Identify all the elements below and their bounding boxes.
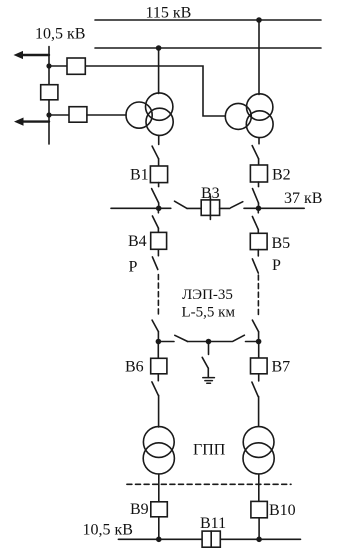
wire blade to bus37 right — [258, 203, 260, 208]
wire center dot down — [208, 342, 210, 355]
transformer T2 winding bottom — [246, 111, 273, 138]
wire bus37 to blade B5 — [257, 208, 259, 213]
svg-text:В2: В2 — [272, 167, 291, 184]
wire blade to GPP T3 — [158, 395, 160, 427]
svg-text:В6: В6 — [125, 359, 144, 376]
transformer T1 winding left — [126, 102, 152, 128]
disconnect blade below B7 — [252, 382, 258, 397]
wire blade to B4 — [157, 228, 159, 232]
wire B4 to blade — [157, 249, 159, 255]
node dot tie right — [256, 339, 262, 345]
disconnect blade below B2 — [253, 189, 259, 203]
breaker B5 — [250, 233, 267, 249]
disconnect blade below B1 — [152, 189, 159, 203]
svg-text:L-5,5 км: L-5,5 км — [182, 305, 236, 321]
node dot bottom bus right — [256, 537, 262, 543]
tie wire center-right — [209, 341, 232, 343]
disconnect blade right of B3 — [231, 202, 243, 208]
wire blade to B1 — [158, 159, 160, 166]
wire dot to switch box SW3 — [49, 114, 69, 116]
node dot bus37 right — [256, 206, 262, 212]
transformer T3 (GPP left) winding bottom — [143, 443, 174, 474]
wire T3 to B9 — [158, 474, 160, 502]
breaker B6 — [151, 358, 167, 374]
svg-text:В4: В4 — [128, 233, 147, 250]
svg-text:ЛЭП-35: ЛЭП-35 — [182, 287, 233, 303]
switch box SW2 (on bus) — [41, 85, 58, 100]
tie wire left — [158, 341, 174, 343]
wire blade to B5 — [257, 230, 259, 234]
wire blade to ground — [207, 368, 209, 377]
transformer T2 winding top — [247, 94, 273, 120]
disconnect blade above B5 — [252, 217, 258, 230]
svg-text:В3: В3 — [201, 185, 220, 202]
disconnect blade below B6 — [152, 382, 158, 395]
transformer T4 (GPP right) winding top — [243, 427, 274, 458]
switch box SW3 — [69, 107, 87, 123]
bus 37 kV left segment — [111, 207, 171, 209]
wire blade to B3 — [187, 207, 201, 209]
wire bus2 to T1 — [158, 48, 160, 94]
breaker B10 — [251, 501, 267, 517]
breaker B11 center bar — [210, 531, 212, 547]
disconnect blade below B4 — [152, 257, 157, 270]
wire blade to B2 — [258, 159, 260, 165]
bus 115 kV section 1 — [95, 19, 321, 21]
node dot on bus1 at T2 drop — [256, 17, 262, 23]
breaker B11 — [202, 531, 220, 547]
svg-text:В7: В7 — [272, 359, 291, 376]
svg-text:37 кВ: 37 кВ — [284, 190, 322, 207]
wire B9 to bus bottom — [158, 517, 160, 540]
wire B6 to blade — [157, 374, 159, 381]
wire blade to tie dot right — [258, 332, 260, 342]
bus 37 kV right segment — [244, 207, 304, 209]
wire dot to switch box SW1 — [49, 65, 67, 67]
disconnect blade above left tie dot — [152, 320, 158, 332]
wire tie dot to B6 — [157, 342, 159, 359]
tie wire right — [246, 341, 259, 343]
disconnect blade left of B3 — [175, 201, 188, 208]
wire bus1 to T2 — [258, 20, 260, 95]
breaker B3 center bar — [209, 196, 211, 219]
feeder arrow (top) — [22, 54, 50, 56]
tie blade right — [233, 335, 245, 341]
bus 10,5 kV vertical — [48, 47, 50, 145]
disconnect blade above right tie dot — [252, 320, 258, 332]
wire blade to GPP T4 — [258, 397, 260, 426]
wire B2 to blade — [258, 182, 260, 187]
breaker B1 — [150, 166, 167, 183]
node dot bus 10,5 bottom — [46, 112, 51, 117]
switch box SW1 — [67, 58, 85, 74]
svg-text:В1: В1 — [130, 167, 149, 184]
bus 10,5 kV bottom — [118, 538, 300, 540]
wire SW3 to transformer T1 — [87, 114, 126, 116]
svg-text:В5: В5 — [272, 235, 291, 252]
svg-text:В9: В9 — [130, 501, 149, 518]
dashed line left (LEP) — [157, 275, 159, 317]
wire tie dot to B7 — [258, 342, 260, 359]
wire T4 to B10 — [258, 474, 260, 501]
transformer T1 winding top — [146, 93, 173, 120]
svg-text:В11: В11 — [200, 515, 226, 532]
node dot bus37 left — [156, 206, 162, 212]
wire SW1 to corner — [85, 66, 225, 116]
node dot on bus2 at T1 drop — [156, 45, 162, 51]
wire T2 bottom stub — [258, 138, 260, 144]
disconnect blade below B5 — [252, 259, 258, 273]
tie blade left — [175, 335, 188, 341]
node dot tie center — [206, 339, 212, 345]
wire T1 bottom stub — [158, 135, 160, 144]
wire blade to bus37 — [158, 203, 160, 208]
breaker B9 — [151, 502, 168, 517]
svg-text:115 кВ: 115 кВ — [146, 5, 192, 22]
transformer T2 winding left — [225, 103, 251, 129]
svg-text:В10: В10 — [269, 502, 296, 519]
wire B1 to blade — [158, 183, 160, 187]
bus 115 kV section 2 — [95, 47, 321, 49]
transformer T3 (GPP left) winding top — [143, 427, 174, 458]
ground switch blade — [202, 357, 208, 368]
breaker B4 — [151, 232, 167, 249]
breaker B7 — [251, 358, 268, 374]
disconnect blade above B4 — [152, 216, 158, 228]
dashed line right (LEP) — [257, 275, 259, 317]
disconnect blade above B1 — [152, 146, 158, 159]
dashed boundary line — [127, 483, 291, 485]
breaker B2 — [250, 165, 267, 182]
wire bus37 to blade B4 — [157, 208, 159, 213]
node dot bottom bus left — [156, 537, 162, 543]
breaker B3 — [201, 200, 219, 216]
wire blade to tie dot left — [157, 332, 159, 342]
wire B3 to blade — [220, 207, 230, 209]
ground — [203, 378, 215, 384]
node dot tie left — [156, 339, 162, 345]
svg-text:10,5 кВ: 10,5 кВ — [35, 26, 85, 43]
wire B5 to blade — [257, 250, 259, 256]
transformer T1 winding bottom — [146, 108, 173, 135]
feeder arrow (bottom) — [22, 120, 49, 122]
node dot bus 10,5 top — [46, 63, 51, 68]
wire B7 to blade — [258, 374, 260, 381]
svg-text:ГПП: ГПП — [193, 442, 226, 459]
disconnect blade above B2 — [252, 146, 258, 159]
transformer T4 (GPP right) winding bottom — [243, 443, 274, 474]
svg-text:Р: Р — [272, 257, 281, 274]
svg-text:10,5 кВ: 10,5 кВ — [83, 522, 133, 539]
svg-text:Р: Р — [129, 259, 138, 276]
wire B10 to bus bottom — [258, 518, 260, 540]
tie wire left-center — [187, 341, 208, 343]
